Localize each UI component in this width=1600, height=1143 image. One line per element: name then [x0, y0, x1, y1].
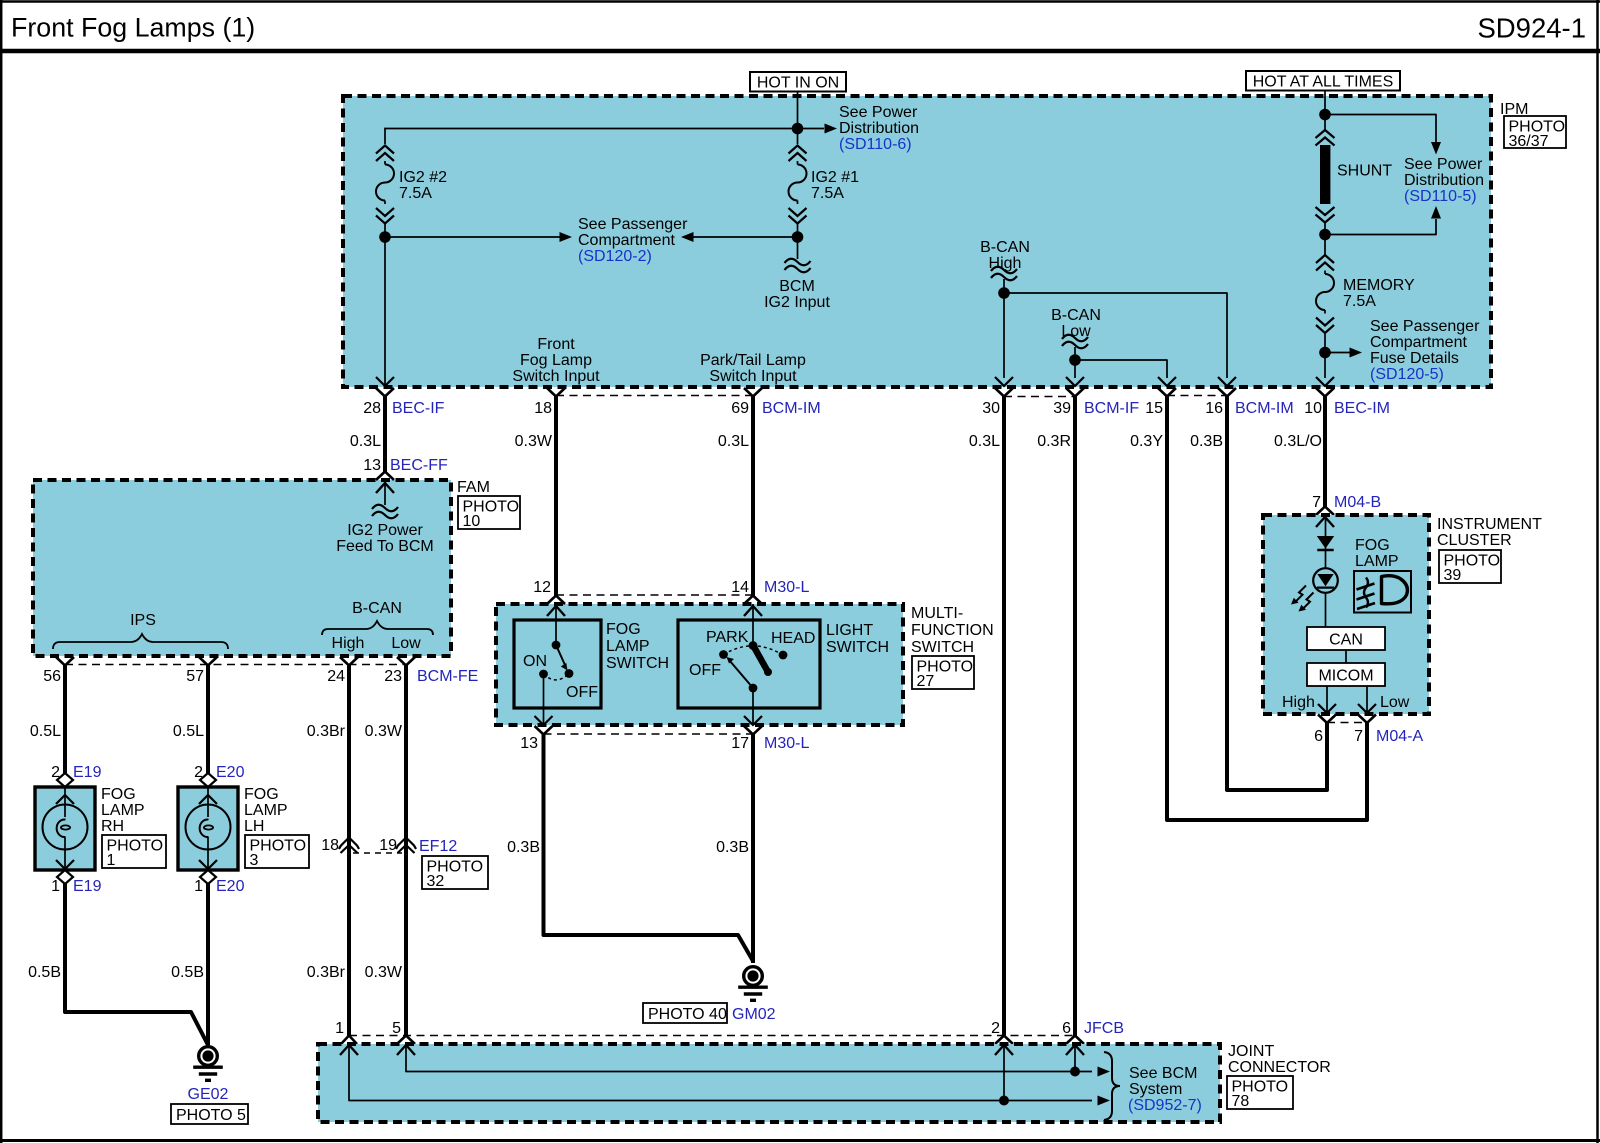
interrupt symbol IG2 power feed — [372, 505, 398, 519]
wire IPS to fog lamp RH — [63, 666, 67, 774]
arrow see passenger compartment right — [681, 232, 798, 242]
JFCB photo box — [1227, 1076, 1293, 1110]
wire B-CAN Low to pin 39 — [1074, 360, 1076, 378]
svg-text:INSTRUMENT: INSTRUMENT — [1437, 516, 1542, 533]
svg-text:FAM: FAM — [457, 479, 490, 496]
label OFF light — [689, 662, 721, 679]
FAM pin 13 entry — [376, 472, 394, 494]
label 0.3L/O pin10 — [1274, 433, 1322, 450]
cluster pin 7 connector M04-B — [1312, 494, 1381, 515]
node junction shunt bottom — [1319, 229, 1331, 241]
svg-text:0.3B: 0.3B — [507, 839, 540, 856]
wire memory to pin 10 — [1324, 353, 1326, 379]
label JOINT CONNECTOR — [1228, 1043, 1331, 1076]
node junction shunt top — [1319, 109, 1331, 121]
fuse MEMORY 7.5A — [1316, 255, 1334, 333]
svg-text:0.5L: 0.5L — [30, 723, 61, 740]
cluster pin 7b connector M04-A — [1354, 715, 1423, 746]
svg-text:PHOTO 40: PHOTO 40 — [648, 1006, 727, 1023]
svg-text:See BCM: See BCM — [1129, 1065, 1197, 1082]
label 5 JFCB — [392, 1020, 401, 1037]
fog lamp LH box — [178, 787, 238, 870]
EF12 pin 19 connector — [379, 837, 457, 855]
JFCB entry arrows — [340, 1045, 1084, 1055]
svg-text:15: 15 — [1145, 400, 1163, 417]
interrupt symbol BCM IG2 input — [785, 259, 811, 273]
IPM pin 18 connector — [534, 388, 565, 417]
svg-text:1: 1 — [107, 852, 116, 869]
svg-text:19: 19 — [379, 837, 397, 854]
wire 0.3L to MFS pin 14 — [751, 397, 755, 596]
fuse IG2 #1 7.5A — [789, 146, 807, 224]
MICOM box — [1307, 663, 1385, 686]
svg-text:LAMP: LAMP — [101, 802, 145, 819]
svg-text:BEC-IM: BEC-IM — [1334, 400, 1390, 417]
svg-text:See Power: See Power — [839, 104, 918, 121]
EF12 pin 18 connector — [321, 837, 359, 854]
wire hot-in-on to fuse IG2#1 — [797, 129, 799, 145]
svg-text:FOG: FOG — [606, 621, 641, 638]
svg-text:See Passenger: See Passenger — [578, 216, 688, 233]
svg-text:0.3L/O: 0.3L/O — [1274, 433, 1322, 450]
MFS pin 17 connector — [731, 726, 809, 752]
label INSTRUMENT CLUSTER — [1437, 516, 1542, 549]
svg-text:0.5B: 0.5B — [171, 964, 204, 981]
label B-CAN High — [980, 239, 1030, 272]
svg-text:BCM-FE: BCM-FE — [417, 668, 478, 685]
svg-text:7: 7 — [1312, 494, 1321, 511]
wire IG2 power feed — [384, 481, 386, 505]
FAM module box — [33, 480, 451, 656]
svg-text:57: 57 — [186, 668, 204, 685]
label 0.5B LH — [171, 964, 204, 981]
svg-text:24: 24 — [327, 668, 345, 685]
label BCM IG2 Input — [764, 278, 830, 311]
svg-text:GE02: GE02 — [188, 1086, 229, 1103]
svg-text:E20: E20 — [216, 878, 245, 895]
label 0.3W lower — [365, 964, 403, 981]
fog lamp RH pin 2 connector — [51, 764, 101, 787]
node junction B-CAN High — [998, 287, 1010, 299]
svg-text:Switch Input: Switch Input — [709, 368, 797, 385]
label 0.3Br upper — [307, 723, 346, 740]
wire B-CAN Low drop — [1074, 347, 1076, 360]
JFCB pin 1 connector — [341, 1036, 357, 1045]
arrow down to SD110-5 — [1431, 142, 1441, 155]
label 0.5B RH — [28, 964, 61, 981]
svg-text:LAMP: LAMP — [1355, 553, 1399, 570]
JFCB pin 6 connector — [1066, 1036, 1084, 1045]
wire IPS to fog lamp LH — [206, 666, 210, 774]
svg-text:7.5A: 7.5A — [399, 185, 432, 202]
node junction below IG2 #1 — [792, 231, 804, 243]
svg-text:18: 18 — [321, 837, 339, 854]
svg-text:BCM-IF: BCM-IF — [1084, 400, 1139, 417]
connector group dash 12-14 — [556, 594, 753, 596]
IPM pin 39 connector — [1053, 388, 1139, 417]
label IPS — [130, 612, 156, 629]
svg-text:ON: ON — [523, 653, 547, 670]
svg-text:BEC-IF: BEC-IF — [392, 400, 445, 417]
svg-text:CLUSTER: CLUSTER — [1437, 532, 1512, 549]
svg-text:EF12: EF12 — [419, 838, 457, 855]
connector group dash 15-16 — [1167, 395, 1227, 397]
svg-text:JOINT: JOINT — [1228, 1043, 1274, 1060]
label FOG LAMP SWITCH — [606, 621, 669, 672]
svg-text:Low: Low — [391, 635, 421, 652]
svg-text:IPS: IPS — [130, 612, 156, 629]
svg-text:HOT AT ALL TIMES: HOT AT ALL TIMES — [1253, 74, 1394, 91]
connector group dash 30-39 — [1004, 396, 1075, 398]
svg-text:High: High — [1282, 694, 1315, 711]
svg-text:0.3Br: 0.3Br — [307, 723, 346, 740]
label OFF fog — [566, 684, 598, 701]
svg-text:B-CAN: B-CAN — [352, 600, 402, 617]
FAM pin 57 connector — [186, 657, 217, 685]
IPM pin 28 connector — [363, 388, 444, 417]
wire 0.3B to cluster High — [1227, 397, 1327, 791]
ground GM02 — [738, 967, 768, 1001]
label 0.5L lamp RH — [30, 723, 61, 740]
svg-text:0.3W: 0.3W — [515, 433, 553, 450]
light switch dashed arc — [724, 646, 784, 655]
fog lamp LH bulb — [186, 787, 231, 869]
label GE02 — [188, 1086, 229, 1103]
svg-text:7: 7 — [1354, 728, 1363, 745]
wire shunt branch top — [1325, 115, 1436, 146]
svg-text:13: 13 — [363, 457, 381, 474]
svg-text:0.3Br: 0.3Br — [307, 964, 346, 981]
svg-text:Distribution: Distribution — [1404, 172, 1484, 189]
fuse IG2 #2 label — [399, 169, 447, 202]
IPM module box — [343, 96, 1491, 387]
label See BCM System (SD952-7) — [1128, 1065, 1202, 1114]
svg-text:LIGHT: LIGHT — [826, 622, 873, 639]
wire JFCB pin2 drop — [1003, 1045, 1005, 1101]
svg-text:CONNECTOR: CONNECTOR — [1228, 1059, 1331, 1076]
svg-text:OFF: OFF — [566, 684, 598, 701]
wire 0.3R to JFCB pin 6 — [1073, 397, 1077, 1036]
label High — [332, 635, 365, 652]
svg-text:See Power: See Power — [1404, 156, 1483, 173]
svg-text:B-CAN: B-CAN — [980, 239, 1030, 256]
svg-text:10: 10 — [463, 513, 481, 530]
svg-text:0.3B: 0.3B — [716, 839, 749, 856]
fog switch ON contact — [539, 670, 548, 679]
wire pin14 to light switch pivot — [752, 604, 754, 645]
wire B-CAN High drop — [1003, 279, 1005, 293]
MFS pin 13 connector — [520, 726, 552, 752]
light switch sub-box — [678, 620, 820, 708]
fuse IG2 #1 label — [811, 169, 859, 202]
label GM02 — [732, 1006, 776, 1023]
svg-text:1: 1 — [194, 878, 203, 895]
wire IG2 feed bus — [385, 128, 798, 144]
fog lamp RH box — [35, 787, 95, 870]
arrow exit — [1218, 377, 1236, 386]
GM02 photo box — [643, 1003, 727, 1023]
svg-text:0.3B: 0.3B — [1190, 433, 1223, 450]
label HOT AT ALL TIMES — [1246, 71, 1400, 91]
svg-text:32: 32 — [427, 873, 445, 890]
label See Passenger Compartment Fuse Details (SD120-5) — [1370, 318, 1480, 383]
fuse MEMORY label — [1343, 277, 1415, 310]
svg-text:M04-B: M04-B — [1334, 494, 1381, 511]
IPM pin 30 connector — [982, 388, 1013, 417]
svg-text:RH: RH — [101, 818, 124, 835]
label Low cluster — [1380, 694, 1410, 711]
label FOG LAMP RH — [101, 786, 145, 835]
LED light rays — [1291, 586, 1314, 612]
svg-text:See Passenger: See Passenger — [1370, 318, 1480, 335]
svg-text:IG2 #2: IG2 #2 — [399, 169, 447, 186]
svg-text:69: 69 — [731, 400, 749, 417]
connector group dash EF12 — [353, 852, 402, 854]
label 0.3L pin28 — [350, 433, 381, 450]
fog switch OFF contact — [565, 669, 574, 678]
svg-text:BCM: BCM — [779, 278, 815, 295]
svg-text:BCM-IM: BCM-IM — [1235, 400, 1294, 417]
svg-text:7.5A: 7.5A — [811, 185, 844, 202]
wire JFCB pin1 bus — [349, 1045, 1092, 1101]
MFS pin 12 connector — [533, 579, 565, 604]
label 0.3Br lower — [307, 964, 346, 981]
label See Power Distribution (SD110-5) — [1404, 156, 1484, 205]
node junction B-CAN Low — [1069, 354, 1081, 366]
wire shunt top — [1324, 115, 1326, 131]
svg-text:(SD952-7): (SD952-7) — [1128, 1097, 1202, 1114]
svg-text:IG2 Power: IG2 Power — [347, 522, 423, 539]
svg-text:Fog Lamp: Fog Lamp — [520, 352, 592, 369]
wire 0.3W to MFS pin 12 — [554, 397, 558, 596]
wire hot-in-on drop — [797, 92, 799, 129]
arrow JFCB lower — [1098, 1096, 1111, 1106]
label See Passenger Compartment (SD120-2) — [578, 216, 688, 265]
IPM pin 10 connector — [1304, 388, 1390, 417]
label B-CAN — [352, 600, 402, 617]
label LIGHT SWITCH — [826, 622, 889, 656]
wire fuse IG2#2 to node — [384, 224, 386, 233]
label 0.3L pin69 — [718, 433, 749, 450]
svg-text:GM02: GM02 — [732, 1006, 776, 1023]
svg-text:0.3L: 0.3L — [718, 433, 749, 450]
svg-text:28: 28 — [363, 400, 381, 417]
svg-text:B-CAN: B-CAN — [1051, 307, 1101, 324]
wire 0.3B pin17 to ground — [751, 735, 755, 964]
wire B-CAN Low branch — [1075, 360, 1167, 378]
svg-text:5: 5 — [392, 1020, 401, 1037]
label SHUNT — [1337, 163, 1392, 180]
svg-text:(SD120-5): (SD120-5) — [1370, 366, 1444, 383]
wire JFCB pin6 drop — [1074, 1045, 1076, 1072]
wire JFCB pin5 bus — [406, 1045, 1092, 1072]
fog lamp LH pin 1 connector — [194, 870, 244, 895]
svg-text:High: High — [332, 635, 365, 652]
light switch HEAD contact — [779, 651, 788, 660]
svg-text:SWITCH: SWITCH — [606, 655, 669, 672]
svg-text:Park/Tail Lamp: Park/Tail Lamp — [700, 352, 806, 369]
svg-text:14: 14 — [731, 579, 749, 596]
svg-text:SHUNT: SHUNT — [1337, 163, 1392, 180]
label PARK — [706, 629, 749, 646]
wire 0.3W lower segment — [404, 845, 408, 1036]
svg-text:17: 17 — [731, 735, 749, 752]
svg-text:36/37: 36/37 — [1509, 133, 1549, 150]
svg-text:M30-L: M30-L — [764, 579, 809, 596]
svg-text:Compartment: Compartment — [578, 232, 675, 249]
svg-text:M04-A: M04-A — [1376, 728, 1423, 745]
svg-text:LAMP: LAMP — [244, 802, 288, 819]
wire 0.3L to JFCB pin 2 — [1002, 397, 1006, 1036]
label MULTI-FUNCTION SWITCH — [911, 605, 994, 656]
fog lamp LH photo box — [245, 835, 309, 869]
node junction JFCB lower — [999, 1096, 1009, 1106]
diode symbol — [1317, 536, 1334, 550]
wire memory fuse to node — [1324, 333, 1326, 353]
wire node to BCM IG2 interrupt — [797, 237, 799, 259]
wire MICOM High out — [1326, 686, 1328, 712]
svg-text:CAN: CAN — [1329, 632, 1363, 649]
cluster photo box — [1439, 550, 1501, 584]
arrow JFCB upper — [1098, 1067, 1111, 1077]
label 0.3B wire13 — [507, 839, 540, 856]
svg-text:39: 39 — [1444, 567, 1462, 584]
wire MICOM Low out — [1366, 686, 1368, 712]
label IG2 Power Feed To BCM — [336, 522, 434, 555]
B-CAN brace — [322, 621, 433, 635]
svg-text:0.3L: 0.3L — [350, 433, 381, 450]
wire B-CAN High to pin 30 — [1003, 293, 1005, 378]
label ON — [523, 653, 547, 670]
wire hot-at-all-times drop — [1324, 91, 1326, 115]
svg-text:MICOM: MICOM — [1318, 668, 1373, 685]
cluster exit arrows — [1318, 704, 1376, 713]
svg-text:Front: Front — [537, 336, 575, 353]
JFCB pin 2 connector — [995, 1036, 1013, 1045]
fog switch lever — [556, 645, 568, 671]
fog lamp icon box — [1354, 571, 1411, 613]
MFS pin 14 connector — [731, 579, 809, 604]
label HEAD — [771, 630, 815, 647]
svg-text:FOG: FOG — [244, 786, 279, 803]
svg-text:0.5L: 0.5L — [173, 723, 204, 740]
wire ON contact to pin 13 — [543, 678, 545, 724]
arrow exit — [1066, 377, 1084, 386]
svg-text:FOG: FOG — [1355, 537, 1390, 554]
svg-text:23: 23 — [384, 668, 402, 685]
JFCB pin 5 connector — [397, 1036, 415, 1045]
label 0.3Y pin15 — [1130, 433, 1163, 450]
fog lamp RH bulb — [43, 787, 88, 869]
svg-text:SD924-1: SD924-1 — [1477, 13, 1586, 44]
svg-text:MEMORY: MEMORY — [1343, 277, 1415, 294]
title SD924-1 — [1477, 13, 1586, 44]
svg-text:0.3W: 0.3W — [365, 964, 403, 981]
svg-text:30: 30 — [982, 400, 1000, 417]
svg-text:(SD110-5): (SD110-5) — [1404, 188, 1477, 205]
wire light switch to pin 17 — [752, 692, 754, 724]
wire B-CAN High branch — [1004, 293, 1227, 378]
fog lamp LH pin 2 connector — [194, 764, 244, 787]
label Park/Tail Lamp Switch Input — [700, 352, 806, 385]
svg-text:39: 39 — [1053, 400, 1071, 417]
svg-text:Feed To BCM: Feed To BCM — [336, 538, 434, 555]
label HOT IN ON — [750, 72, 846, 92]
arrow exit — [1158, 377, 1176, 386]
svg-text:(SD120-2): (SD120-2) — [578, 248, 652, 265]
connector group dash FAM — [65, 664, 407, 666]
ground GE02 — [193, 1047, 223, 1081]
svg-text:0.3L: 0.3L — [969, 433, 1000, 450]
arrow up to SD110-5 — [1431, 206, 1441, 219]
svg-text:0.3Y: 0.3Y — [1130, 433, 1163, 450]
wire BEC-IF 0.3L — [383, 397, 387, 472]
label Low — [391, 635, 421, 652]
wire 0.3B pin13 to ground — [544, 735, 754, 962]
svg-text:18: 18 — [534, 400, 552, 417]
label See Power Distribution (SD110-6) — [839, 104, 919, 153]
GE02 photo box — [171, 1104, 248, 1124]
svg-text:27: 27 — [917, 673, 935, 690]
svg-text:BCM-IM: BCM-IM — [762, 400, 821, 417]
IPS brace — [53, 634, 228, 649]
svg-text:0.3R: 0.3R — [1037, 433, 1071, 450]
svg-text:HEAD: HEAD — [771, 630, 815, 647]
MFS exit arrows — [535, 716, 763, 725]
FAM pin 56 connector — [43, 657, 74, 685]
svg-text:System: System — [1129, 1081, 1182, 1098]
joint connector box — [318, 1044, 1220, 1122]
label 2 JFCB — [991, 1020, 1000, 1037]
node junction below IG2 #2 — [379, 231, 391, 243]
wire pin12 to fog switch pivot — [555, 604, 557, 645]
svg-text:FOG: FOG — [101, 786, 136, 803]
wire 0.3L/O to cluster pin 7 — [1323, 397, 1327, 507]
svg-text:OFF: OFF — [689, 662, 721, 679]
label 0.3B wire17 — [716, 839, 749, 856]
EF12 photo box — [422, 856, 488, 890]
wire IG2#2 node to pin 28 — [384, 237, 386, 385]
svg-text:M30-L: M30-L — [764, 735, 809, 752]
light switch OFF contact — [719, 650, 728, 659]
fuse IG2 #2 7.5A — [376, 146, 394, 224]
svg-text:3: 3 — [250, 852, 259, 869]
svg-text:7.5A: 7.5A — [1343, 293, 1376, 310]
fog lamp switch sub-box — [514, 620, 601, 708]
arrow see passenger compartment left — [385, 232, 572, 242]
node junction IG2 feed — [792, 123, 804, 135]
arrow exit — [995, 377, 1013, 386]
wire IG2#1 to node — [797, 224, 799, 233]
arrow see passenger fuse details — [1325, 348, 1362, 358]
light switch wiper arrow — [727, 657, 754, 688]
svg-text:E19: E19 — [73, 764, 102, 781]
svg-text:0.5B: 0.5B — [28, 964, 61, 981]
IPM pin 16 connector — [1205, 388, 1293, 417]
svg-text:6: 6 — [1062, 1020, 1071, 1037]
title rule — [0, 49, 1600, 54]
svg-text:FUNCTION: FUNCTION — [911, 622, 994, 639]
fog lamp RH photo box — [102, 835, 166, 869]
node junction JFCB upper — [1070, 1067, 1080, 1077]
svg-text:Distribution: Distribution — [839, 120, 919, 137]
svg-text:BEC-FF: BEC-FF — [390, 457, 448, 474]
LED indicator — [1313, 568, 1338, 593]
connector group dash JFCB — [349, 1035, 1075, 1037]
svg-text:56: 56 — [43, 668, 61, 685]
wire CAN to MICOM — [1345, 650, 1347, 663]
wire 0.3Y to cluster Low — [1167, 397, 1367, 821]
